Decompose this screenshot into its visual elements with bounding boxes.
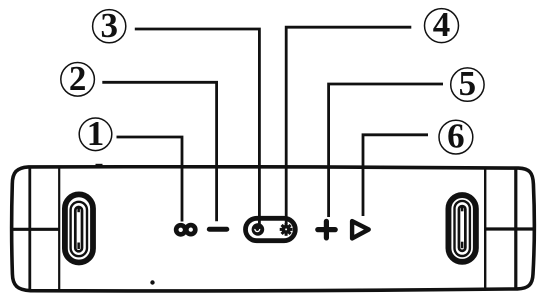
right seam line 2 [514, 168, 517, 289]
leader line 6 [363, 135, 428, 216]
svg-text:4: 4 [433, 5, 451, 44]
top edge seam bump [96, 164, 103, 166]
left seam line 2 [58, 167, 60, 291]
svg-text:6: 6 [447, 117, 465, 156]
leader line 5 [329, 84, 443, 217]
right horizontal crossline [485, 227, 534, 230]
power slider pill [246, 218, 296, 240]
left passive radiator grille [65, 194, 93, 262]
callout circle 3 [93, 10, 126, 43]
left horizontal crossline [11, 228, 59, 231]
leader line 3 [135, 29, 260, 224]
right passive radiator grille [448, 195, 475, 262]
button: volume plus [318, 221, 335, 238]
svg-text:3: 3 [100, 6, 118, 45]
button: volume minus [207, 227, 230, 232]
power button disc [252, 223, 265, 236]
leader line 2 [102, 82, 216, 221]
button: pairing infinity right ring [186, 225, 195, 234]
callout circle 2 [61, 63, 95, 97]
leader line 1 [117, 137, 183, 222]
svg-text:5: 5 [459, 64, 477, 103]
speaker body outline [12, 167, 535, 291]
right seam line 1 [484, 168, 486, 289]
reset hole dot [150, 280, 154, 284]
left seam line 1 [28, 167, 31, 291]
callout circle 1 [79, 118, 112, 151]
callout circle 5 [451, 68, 484, 101]
button: pairing infinity left ring [176, 225, 185, 234]
settings star button [280, 223, 293, 236]
svg-text:1: 1 [87, 114, 105, 153]
callout circle 6 [439, 120, 473, 154]
button: play triangle [352, 221, 369, 238]
power glyph arc [255, 229, 260, 232]
leader line 4 [286, 27, 411, 224]
callout circle 4 [425, 9, 459, 43]
svg-text:2: 2 [69, 59, 87, 98]
